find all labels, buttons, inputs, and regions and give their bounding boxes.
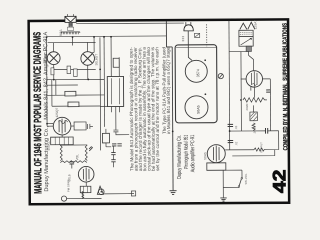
svg-text:50L6GT: 50L6GT <box>94 54 98 66</box>
svg-text:50A5: 50A5 <box>196 105 200 113</box>
svg-text:3574: 3574 <box>196 69 200 77</box>
svg-text:50A5: 50A5 <box>203 152 207 160</box>
svg-text:20MF: 20MF <box>245 103 249 110</box>
svg-text:Dupuy Manufacturing Co.: Dupuy Manufacturing Co. <box>176 135 183 179</box>
svg-text:12SQ7: 12SQ7 <box>55 107 59 117</box>
svg-text:35Z5GT: 35Z5GT <box>44 52 48 64</box>
svg-text:SW-VOL: SW-VOL <box>244 173 248 184</box>
svg-text:20 25: 20 25 <box>253 126 257 133</box>
svg-text:12SA7: 12SA7 <box>253 20 257 30</box>
svg-text:42: 42 <box>269 170 289 194</box>
svg-text:Audio amplifier PC-91: Audio amplifier PC-91 <box>189 135 196 173</box>
svg-text:set by the control and the mot: set by the control and the motor runs at… <box>155 47 161 171</box>
svg-text:COMPILED BY M. N. BEITMAN, SU: COMPILED BY M. N. BEITMAN, SUPREME PUBLI… <box>282 22 290 150</box>
svg-text:.02: .02 <box>234 141 238 145</box>
svg-text:PM SPKR: PM SPKR <box>66 179 70 192</box>
svg-text:RES: RES <box>59 30 63 37</box>
svg-text:VOL: VOL <box>75 154 79 161</box>
svg-text:in Models 841 and 842) uses a: in Models 841 and 842) uses a 6SQ7 stage <box>166 47 171 134</box>
svg-text:OUTPUT: OUTPUT <box>259 142 263 153</box>
svg-text:455KC: 455KC <box>47 140 51 150</box>
svg-text:.05: .05 <box>234 125 238 129</box>
svg-text:Phonograph Model 851: Phonograph Model 851 <box>183 135 190 169</box>
